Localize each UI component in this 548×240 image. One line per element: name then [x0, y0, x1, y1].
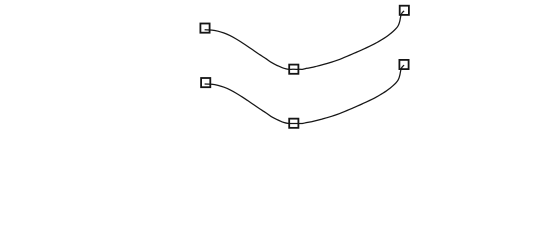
node B : top curve middle handle	[289, 65, 298, 74]
node F : bottom curve right handle	[399, 60, 408, 69]
wire : top spline curve	[205, 11, 404, 70]
node A : top curve left handle	[200, 24, 209, 33]
node C : top curve right handle	[400, 6, 409, 15]
node D : bottom curve left handle	[201, 78, 210, 87]
wire : bottom spline curve	[205, 65, 404, 124]
node E : bottom curve middle handle	[289, 119, 298, 128]
